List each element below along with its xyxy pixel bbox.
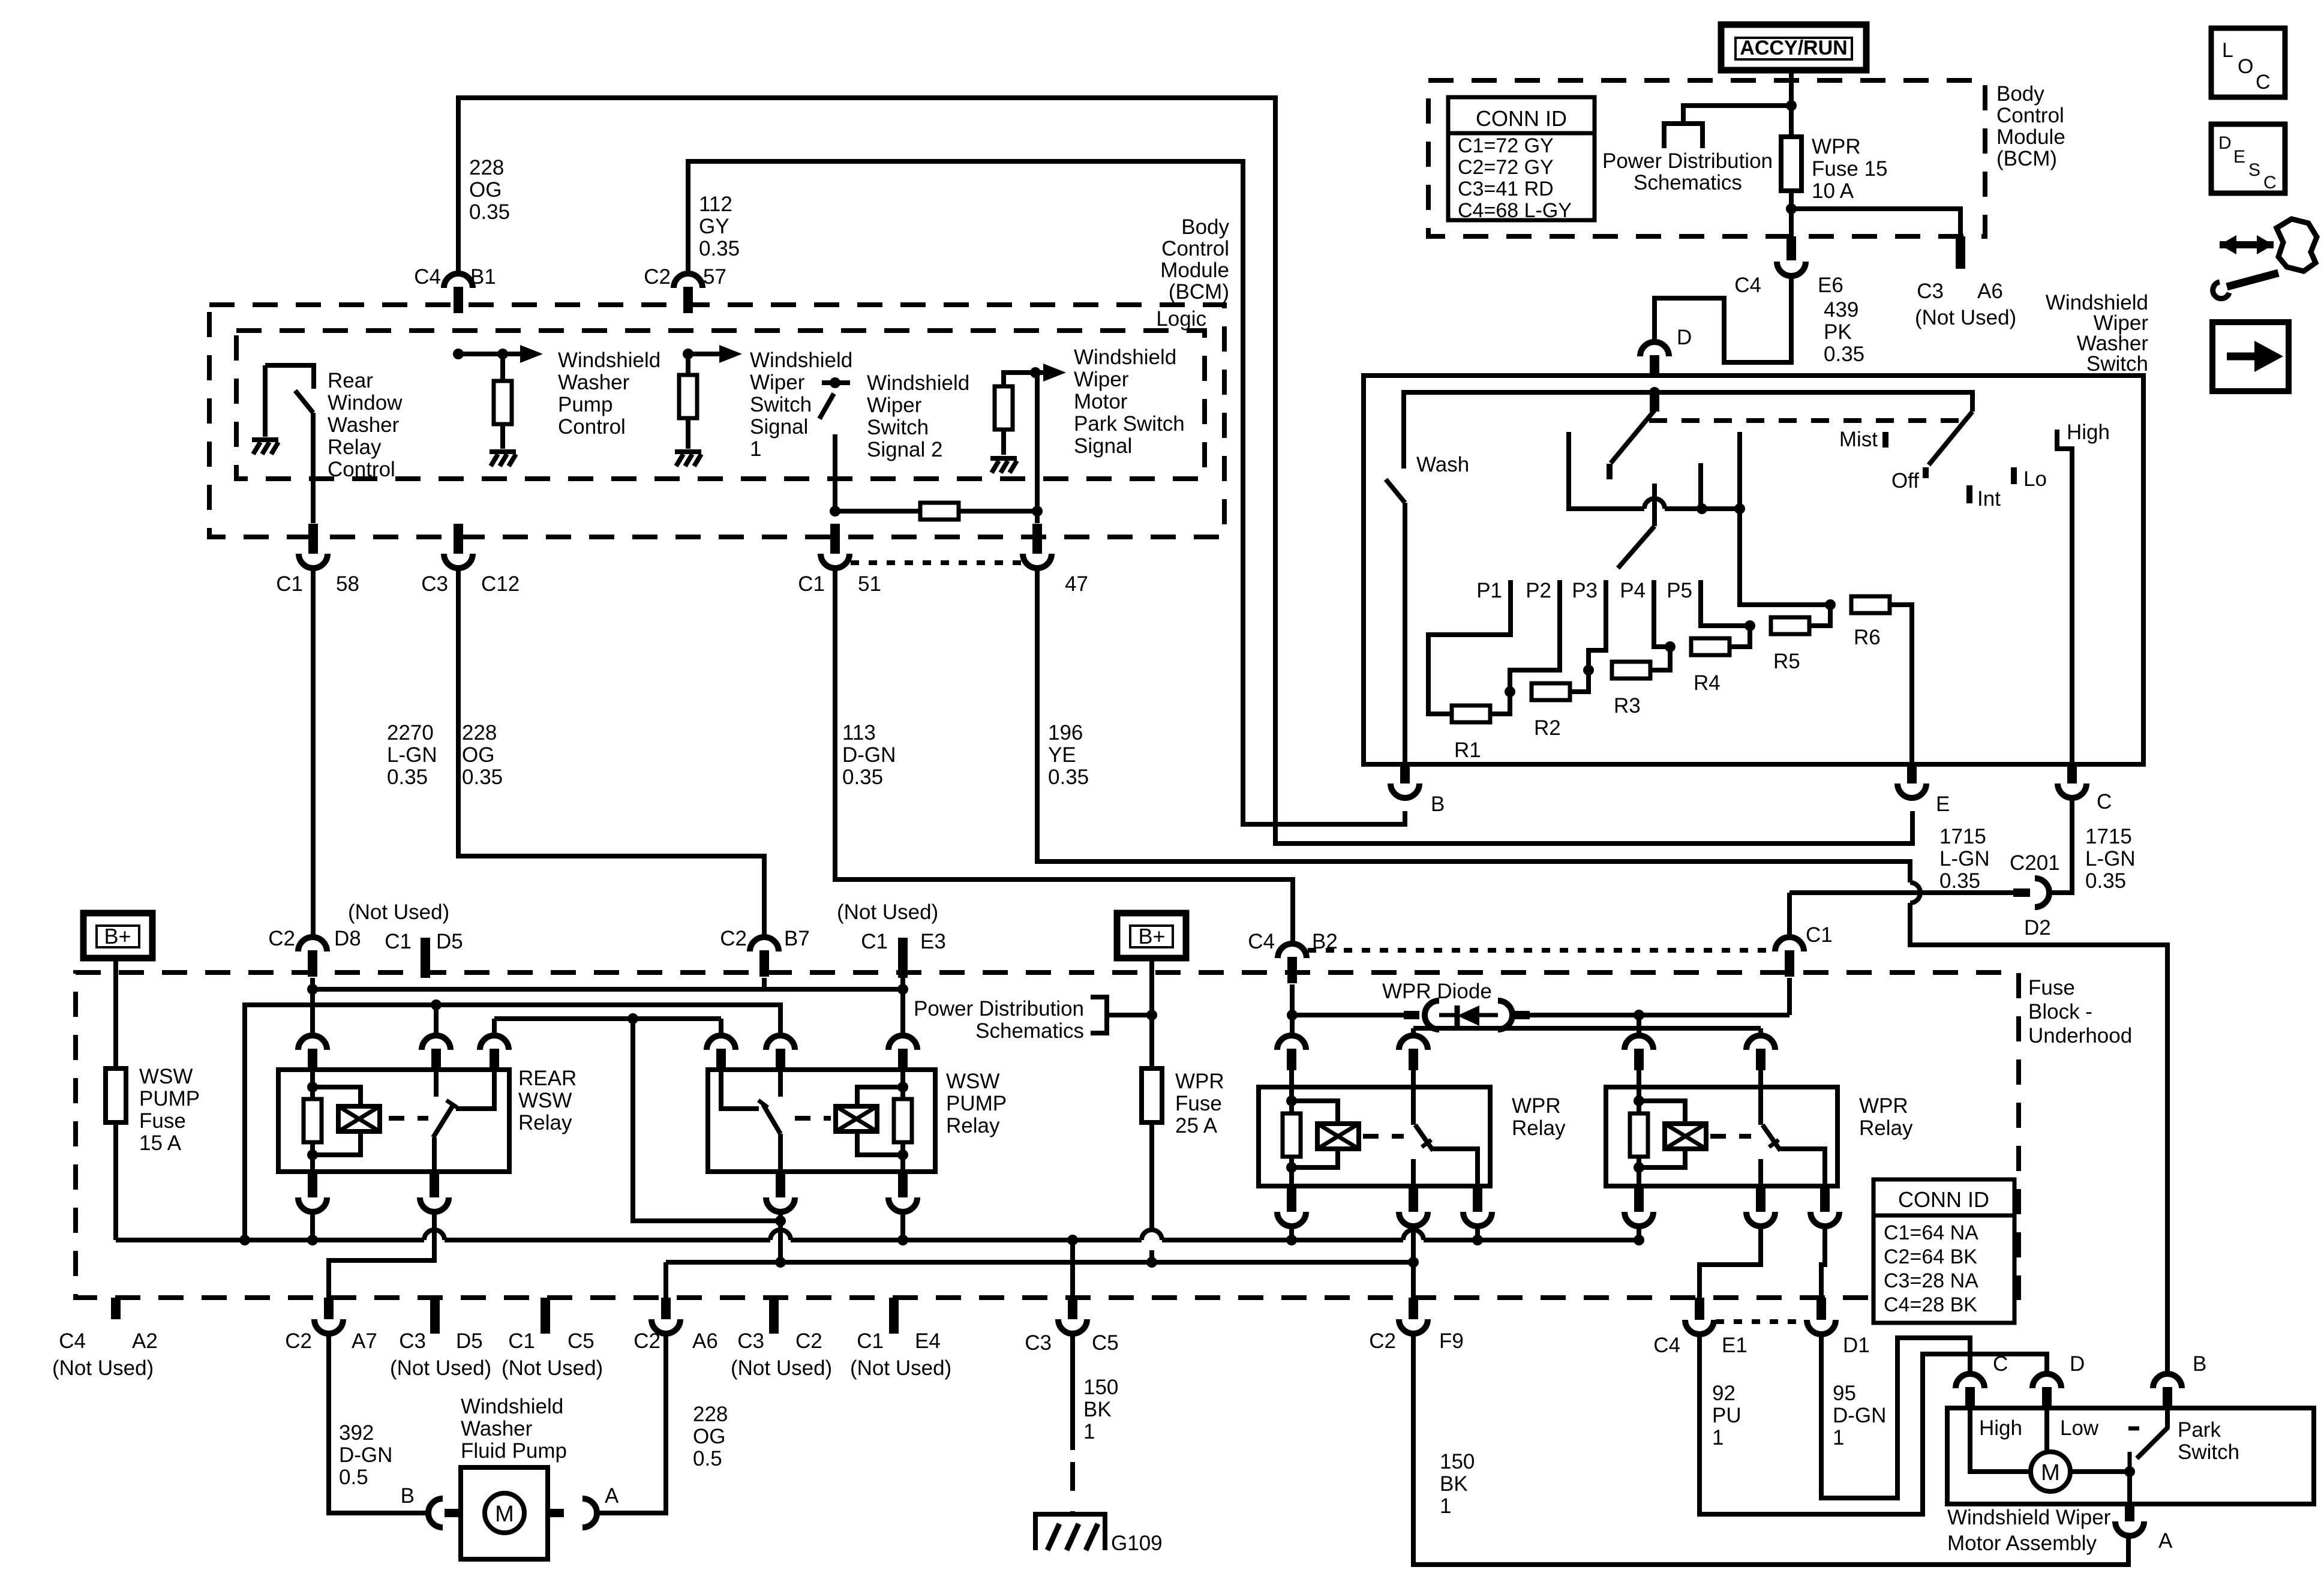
- connector C4/B2: [1278, 944, 1307, 983]
- relay WPR Relay 2 box: [1606, 1087, 1837, 1186]
- svg-text:Fuse: Fuse: [2028, 976, 2075, 999]
- svg-text:150: 150: [1440, 1450, 1475, 1473]
- svg-text:R1: R1: [1454, 739, 1481, 762]
- svg-text:C1: C1: [857, 1329, 884, 1353]
- wire Low to motor: [2044, 1408, 2049, 1452]
- switch Off/Mist blade (right): [1929, 412, 1972, 465]
- label D5 (bottom): [456, 1329, 483, 1353]
- label 228 OG 0.35 (C12): [462, 721, 503, 789]
- svg-text:C201: C201: [2010, 851, 2060, 875]
- svg-text:228: 228: [462, 721, 497, 745]
- svg-text:Fuse: Fuse: [1175, 1092, 1222, 1115]
- WSW relay terminal conn TL: [707, 1035, 735, 1070]
- wire relay T2 tie: [1413, 1028, 1761, 1035]
- label R5: [1773, 650, 1800, 673]
- BCM right dashed box: [1428, 80, 1985, 236]
- svg-text:(BCM): (BCM): [1169, 280, 1229, 304]
- svg-text:R6: R6: [1854, 626, 1881, 649]
- wire switch feed bus: [1404, 392, 1972, 469]
- svg-text:Control: Control: [1996, 104, 2064, 127]
- svg-text:D5: D5: [456, 1329, 483, 1353]
- svg-text:Fuse 15: Fuse 15: [1812, 157, 1887, 181]
- REAR relay mech dashes: [389, 1116, 428, 1121]
- wire ACCY/RUN to fuse: [1789, 70, 1794, 137]
- svg-text:Rear: Rear: [328, 369, 373, 392]
- connector C4/E1: [1685, 1298, 1714, 1334]
- node signal2 junction: [830, 506, 840, 517]
- connector E (switch): [1897, 764, 1926, 798]
- label A6 (BCM): [1977, 280, 2003, 303]
- svg-text:Windshield: Windshield: [750, 349, 852, 372]
- svg-text:(Not Used): (Not Used): [390, 1356, 491, 1380]
- fuse WSW PUMP Fuse 15A: [106, 1068, 126, 1122]
- resistor R3: [1612, 662, 1650, 679]
- relay WSW PUMP Relay box: [708, 1070, 935, 1172]
- svg-text:R3: R3: [1614, 694, 1641, 718]
- svg-text:C: C: [1993, 1352, 2008, 1376]
- svg-text:Signal: Signal: [1074, 434, 1132, 458]
- connector C1/51: [821, 524, 849, 568]
- label WPR Fuse 15 10 A: [1812, 135, 1887, 203]
- svg-text:1: 1: [1440, 1494, 1451, 1518]
- tap P5: [1701, 580, 1750, 626]
- svg-text:S: S: [2248, 160, 2260, 180]
- BCM Logic inner dashed box: [236, 331, 1205, 479]
- svg-text:WSW: WSW: [518, 1089, 572, 1112]
- svg-text:A7: A7: [352, 1329, 377, 1353]
- svg-text:Switch: Switch: [2178, 1440, 2239, 1464]
- WPR Relay 2 bottom conn NO: [1810, 1186, 1839, 1226]
- tap P3: [1589, 580, 1606, 670]
- label High: [2067, 421, 2110, 444]
- svg-text:C4=68 L-GY: C4=68 L-GY: [1458, 199, 1572, 222]
- label A7: [352, 1329, 377, 1353]
- svg-text:P1: P1: [1476, 579, 1502, 602]
- icon right arrow box: [2212, 322, 2289, 391]
- svg-text:Body: Body: [1996, 82, 2044, 106]
- stub C1/C5 not used: [541, 1298, 550, 1334]
- svg-text:Washer: Washer: [461, 1417, 533, 1440]
- svg-text:C3: C3: [737, 1329, 764, 1353]
- label C1 (51): [798, 572, 825, 596]
- wire bus to C3/C5: [1070, 1240, 1075, 1298]
- svg-text:92: 92: [1712, 1382, 1736, 1405]
- label (Not Used) D5b: [390, 1356, 491, 1380]
- svg-text:ACCY/RUN: ACCY/RUN: [1740, 37, 1847, 59]
- WSW relay solenoid: [836, 1106, 877, 1131]
- svg-text:WSW: WSW: [139, 1065, 193, 1088]
- wire D8 to relay coils: [307, 978, 908, 1035]
- label Power Distribution Schematics (top): [1602, 149, 1773, 194]
- label C5 (gnd): [1092, 1331, 1119, 1355]
- svg-text:Wiper: Wiper: [1074, 368, 1129, 391]
- wire B2 through diode to C1: [1287, 978, 1789, 1035]
- stub C3/A6 not used: [1956, 236, 1965, 269]
- icon DESC box: [2211, 124, 2285, 193]
- stub C3/D5 not used: [430, 1298, 440, 1334]
- svg-text:Low: Low: [2060, 1416, 2099, 1440]
- label C2 (A7): [285, 1329, 312, 1353]
- svg-text:R5: R5: [1773, 650, 1800, 673]
- hop 47-wire over C201 wire: [1910, 882, 1920, 903]
- wire relay1 common to F9: [1408, 1226, 1419, 1298]
- wire WSW switch down: [775, 1212, 786, 1268]
- connector C2/A7: [314, 1298, 343, 1334]
- wiper pole and blade: [1618, 484, 1655, 568]
- wire E1 to motor D: [1700, 1334, 2047, 1514]
- svg-text:L-GN: L-GN: [387, 743, 437, 767]
- svg-text:C: C: [2256, 71, 2271, 94]
- svg-text:(Not Used): (Not Used): [850, 1356, 951, 1380]
- stub C4/A2 not used: [111, 1298, 121, 1319]
- bus fused B+ (y=2067): [116, 1230, 1639, 1240]
- wire R3 to node3: [1650, 647, 1670, 670]
- label Windshield Wiper Switch Signal 2: [867, 371, 969, 461]
- svg-text:M: M: [495, 1502, 514, 1527]
- switch wiper switch signal 2: [819, 377, 850, 511]
- ground (wiper switch signal 1): [675, 452, 701, 466]
- svg-text:B+: B+: [1138, 924, 1165, 948]
- WSW relay bottom conn coil: [888, 1172, 917, 1212]
- svg-text:B7: B7: [784, 927, 810, 950]
- label G109: [1111, 1532, 1163, 1555]
- label 439 PK 0.35: [1824, 298, 1864, 366]
- wire B+ mid to WPR fuse: [1146, 958, 1157, 1068]
- svg-text:R2: R2: [1534, 716, 1561, 740]
- svg-text:D-GN: D-GN: [842, 743, 896, 767]
- connector diode left: [1404, 1001, 1439, 1029]
- svg-text:Fluid Pump: Fluid Pump: [461, 1439, 567, 1463]
- wire resistor to ground: [500, 424, 505, 449]
- switch Wash: [1386, 479, 1405, 764]
- svg-text:Motor Assembly: Motor Assembly: [1947, 1532, 2097, 1555]
- label A2: [132, 1329, 158, 1353]
- svg-text:F9: F9: [1439, 1329, 1464, 1353]
- wire E3 stub join: [900, 978, 905, 989]
- svg-text:G109: G109: [1111, 1532, 1163, 1555]
- svg-text:Lo: Lo: [2023, 467, 2047, 491]
- svg-text:C3: C3: [1917, 280, 1944, 303]
- label E4: [915, 1329, 941, 1353]
- label Windshield Wiper Washer Switch: [2046, 291, 2149, 376]
- wire WPR fuse down: [1146, 1122, 1157, 1268]
- svg-text:WPR: WPR: [1812, 135, 1861, 158]
- svg-text:P4: P4: [1620, 579, 1646, 602]
- svg-text:Signal: Signal: [750, 415, 808, 439]
- svg-text:D: D: [2070, 1352, 2085, 1376]
- svg-text:C1: C1: [276, 572, 303, 596]
- power feed ACCY/RUN box: [1721, 25, 1866, 70]
- svg-text:Windshield: Windshield: [1074, 346, 1176, 369]
- svg-text:Windshield: Windshield: [867, 371, 969, 395]
- svg-text:0.35: 0.35: [1048, 766, 1089, 789]
- wire 113 D-GN pin 51 to B2: [835, 568, 1293, 945]
- svg-text:(Not Used): (Not Used): [1915, 306, 2016, 329]
- label Logic: [1156, 307, 1206, 331]
- label Rear Window Washer Relay Control: [328, 369, 403, 481]
- wire REAR T3 link: [494, 1013, 786, 1226]
- BCM left outer dashed box: [209, 305, 1224, 537]
- svg-text:Wiper: Wiper: [750, 371, 805, 394]
- svg-text:D-GN: D-GN: [339, 1443, 392, 1467]
- label P5: [1667, 579, 1692, 602]
- svg-text:L-GN: L-GN: [2085, 847, 2136, 870]
- svg-text:B1: B1: [470, 265, 496, 289]
- resistor R1: [1452, 706, 1490, 722]
- label R6: [1854, 626, 1881, 649]
- label C3 (gnd): [1025, 1331, 1052, 1355]
- svg-text:C5: C5: [1092, 1331, 1119, 1355]
- dotted harness line E1 to D1: [1716, 1319, 1805, 1324]
- svg-text:M: M: [2041, 1460, 2060, 1485]
- label B7: [784, 927, 810, 950]
- svg-text:Control: Control: [328, 458, 395, 481]
- label REAR WSW Relay: [518, 1067, 577, 1134]
- WPR Relay 2 solenoid: [1665, 1124, 1706, 1149]
- label R4: [1694, 671, 1721, 695]
- wire A6/F9 tie (y=2104): [666, 1262, 1413, 1298]
- svg-text:C1: C1: [385, 930, 412, 953]
- label WSW PUMP Relay: [946, 1070, 1007, 1137]
- WPR Relay 2 terminal conn coil: [1625, 1035, 1653, 1087]
- resistor park switch signal pulldown: [995, 386, 1013, 430]
- label Off: [1891, 469, 1919, 493]
- label (Not Used) E4: [850, 1356, 951, 1380]
- label WPR Relay 1: [1512, 1094, 1566, 1140]
- svg-text:(Not Used): (Not Used): [502, 1356, 603, 1380]
- svg-text:E1: E1: [1722, 1334, 1747, 1357]
- wire washer pump control branch: [458, 345, 543, 382]
- wire REAR coil- to bus: [307, 1212, 318, 1245]
- label 47: [1065, 572, 1088, 596]
- label Low: [2060, 1416, 2099, 1440]
- svg-text:Control: Control: [1161, 237, 1229, 260]
- label C12: [481, 572, 520, 596]
- connector C2/B7: [750, 937, 779, 977]
- svg-text:BK: BK: [1440, 1472, 1468, 1496]
- label D2: [2024, 916, 2051, 939]
- WPR Relay 1 bottom conn coil: [1277, 1186, 1306, 1226]
- svg-text:Power Distribution: Power Distribution: [914, 997, 1084, 1020]
- svg-text:A2: A2: [132, 1329, 158, 1353]
- label C4 (E1): [1653, 1334, 1680, 1357]
- svg-text:D2: D2: [2024, 916, 2051, 939]
- fuse WPR Fuse 15 10A: [1781, 137, 1801, 191]
- label C2 (nu): [795, 1329, 822, 1353]
- svg-text:WSW: WSW: [946, 1070, 999, 1093]
- svg-text:439: 439: [1824, 298, 1858, 322]
- svg-text:Module: Module: [1160, 259, 1229, 282]
- svg-text:Schematics: Schematics: [975, 1019, 1084, 1043]
- svg-text:B: B: [2193, 1352, 2206, 1376]
- WPR Relay 1 bottom conn NO: [1463, 1186, 1492, 1226]
- label 1715 L-GN 0.35 (C): [2085, 825, 2136, 893]
- svg-text:High: High: [2067, 421, 2110, 444]
- svg-text:(BCM): (BCM): [1996, 147, 2057, 170]
- svg-text:WPR: WPR: [1175, 1070, 1224, 1093]
- label P3: [1572, 579, 1598, 602]
- wire REAR switch to A7: [329, 1212, 434, 1298]
- label B (switch): [1431, 792, 1445, 816]
- label 95 D-GN 1: [1833, 1382, 1886, 1449]
- node switch feed junction: [1649, 387, 1660, 398]
- svg-text:C2: C2: [795, 1329, 822, 1353]
- svg-text:Logic: Logic: [1156, 307, 1206, 331]
- ground (rear window washer relay control): [252, 440, 278, 454]
- label Lo: [2023, 467, 2047, 491]
- connector diode right: [1498, 1001, 1530, 1029]
- wire link resistor to 47 wire: [959, 509, 1037, 514]
- svg-text:Relay: Relay: [1859, 1116, 1913, 1140]
- svg-text:196: 196: [1048, 721, 1083, 745]
- label (Not Used) C5: [502, 1356, 603, 1380]
- svg-text:47: 47: [1065, 572, 1088, 596]
- node below fuse: [1786, 203, 1797, 214]
- label C2: [644, 265, 671, 289]
- box windshield wiper washer switch: [1364, 376, 2143, 764]
- contact tick center: [1607, 464, 1613, 479]
- svg-text:0.35: 0.35: [1824, 343, 1864, 366]
- svg-text:228: 228: [469, 156, 504, 179]
- wire below signal1 junction: [686, 354, 690, 376]
- ground (park switch signal): [990, 458, 1017, 473]
- svg-text:E: E: [2233, 147, 2245, 167]
- svg-text:GY: GY: [699, 215, 729, 238]
- svg-text:Relay: Relay: [328, 436, 382, 459]
- svg-text:C4: C4: [414, 265, 441, 289]
- label R1: [1454, 739, 1481, 762]
- svg-text:Switch: Switch: [867, 416, 929, 439]
- label 92 PU 1: [1712, 1382, 1742, 1449]
- connector C2/A6: [651, 1298, 680, 1334]
- wire motor to A junction: [2070, 1466, 2135, 1504]
- dotted harness line B2 to C1: [1308, 948, 1774, 953]
- svg-text:B: B: [1431, 792, 1445, 816]
- connector 47: [1023, 524, 1052, 568]
- label Power Distribution Schematics (fuse block): [914, 997, 1084, 1043]
- motor Windshield Washer Fluid Pump: [461, 1467, 548, 1559]
- label C1 (fuse block): [1806, 923, 1833, 947]
- node3: [1665, 641, 1676, 652]
- off-page bracket power distribution schematics: [1664, 124, 1703, 148]
- label E (switch): [1936, 792, 1950, 816]
- svg-text:Washer: Washer: [328, 413, 400, 437]
- resistor R4: [1691, 638, 1730, 655]
- svg-text:Off: Off: [1891, 469, 1919, 493]
- relay WPR Relay 1 box: [1259, 1087, 1490, 1186]
- svg-text:High: High: [1979, 1416, 2022, 1440]
- connector B (pump): [428, 1499, 461, 1527]
- label D8: [334, 927, 361, 950]
- label D (motor): [2070, 1352, 2085, 1376]
- svg-text:Pump: Pump: [558, 393, 612, 416]
- contact tick Int: [1966, 485, 1972, 503]
- connector C2/57: [674, 274, 702, 313]
- wire power distribution branch: [1683, 106, 1791, 124]
- wire R1 to node1: [1490, 692, 1510, 714]
- svg-text:Signal 2: Signal 2: [867, 438, 942, 461]
- label (Not Used) A2: [52, 1356, 154, 1380]
- REAR relay bottom conn coil: [298, 1172, 327, 1212]
- label 112 GY 0.35: [699, 193, 740, 260]
- svg-text:C1=64 NA: C1=64 NA: [1884, 1221, 1978, 1244]
- bus B+ upper (1675): [239, 999, 780, 1245]
- svg-text:C3: C3: [421, 572, 448, 596]
- wire branch to A6 not used: [1791, 209, 1960, 236]
- svg-text:A: A: [2158, 1529, 2173, 1553]
- connector A (pump): [548, 1499, 597, 1527]
- svg-text:0.5: 0.5: [693, 1447, 722, 1470]
- wire signal2 to resistor link: [835, 509, 920, 514]
- label D5 (top): [436, 930, 463, 953]
- label C3 (C2): [737, 1329, 764, 1353]
- svg-text:C2: C2: [285, 1329, 312, 1353]
- svg-text:Relay: Relay: [946, 1114, 1000, 1137]
- label C201: [2010, 851, 2060, 875]
- contact tick Lo: [2011, 467, 2017, 484]
- connector C1/58: [299, 524, 328, 568]
- ground (washer pump control): [490, 452, 516, 466]
- svg-text:Mist: Mist: [1839, 428, 1878, 451]
- wire R2 to node2: [1570, 670, 1589, 692]
- connector A (motor): [2115, 1504, 2144, 1536]
- connector C201: [2013, 878, 2049, 907]
- label Windshield Wiper Switch Signal 1: [750, 349, 852, 461]
- svg-text:Park Switch: Park Switch: [1074, 412, 1185, 436]
- node2: [1583, 665, 1594, 676]
- svg-text:Motor: Motor: [1074, 390, 1128, 413]
- svg-text:58: 58: [336, 572, 359, 596]
- stub C1/E4 not used: [889, 1298, 899, 1334]
- resistor wiper switch signal 1 pulldown: [679, 375, 697, 418]
- label C3 (A6): [1917, 280, 1944, 303]
- svg-text:0.35: 0.35: [699, 237, 740, 260]
- label 150 BK 1 (C5): [1083, 1376, 1118, 1443]
- svg-text:Relay: Relay: [1512, 1116, 1566, 1140]
- WSW relay terminal conn Tsw: [766, 1035, 795, 1070]
- svg-text:10 A: 10 A: [1812, 179, 1854, 203]
- CONN ID table (fuse block): [1873, 1179, 2014, 1323]
- node washer pump control junction: [453, 349, 508, 359]
- svg-text:Int: Int: [1977, 487, 2001, 511]
- WPR Relay 1 switch: [1413, 1087, 1478, 1186]
- svg-text:Switch: Switch: [2086, 352, 2148, 376]
- svg-text:C2: C2: [1369, 1329, 1396, 1353]
- label F9: [1439, 1329, 1464, 1353]
- svg-text:CONN ID: CONN ID: [1476, 106, 1567, 131]
- dotted harness line between 51 and 47: [851, 560, 1022, 565]
- REAR relay solenoid: [338, 1106, 380, 1131]
- svg-text:R4: R4: [1694, 671, 1721, 695]
- fuse WPR Fuse 25A: [1142, 1068, 1162, 1122]
- WPR Relay 2 mech dashes: [1710, 1134, 1751, 1139]
- REAR relay terminal conn T1: [298, 1035, 327, 1070]
- wire relay2 NO to D1: [1821, 1226, 1825, 1298]
- connector C (motor): [1956, 1374, 1984, 1407]
- label (Not Used) A6: [1915, 306, 2016, 329]
- svg-text:Schematics: Schematics: [1634, 171, 1742, 194]
- svg-text:Control: Control: [558, 415, 626, 439]
- label C (switch): [2097, 790, 2112, 813]
- battery feed B+ mid: [1117, 913, 1186, 958]
- svg-text:Power Distribution: Power Distribution: [1602, 149, 1773, 173]
- label C4 (E6): [1734, 274, 1761, 297]
- wire R5 to node5: [1809, 605, 1830, 626]
- label C4 (B2): [1248, 930, 1275, 953]
- wire E6 to switch D: [1655, 276, 1791, 362]
- svg-text:C: C: [2263, 173, 2277, 193]
- svg-text:OG: OG: [462, 743, 494, 767]
